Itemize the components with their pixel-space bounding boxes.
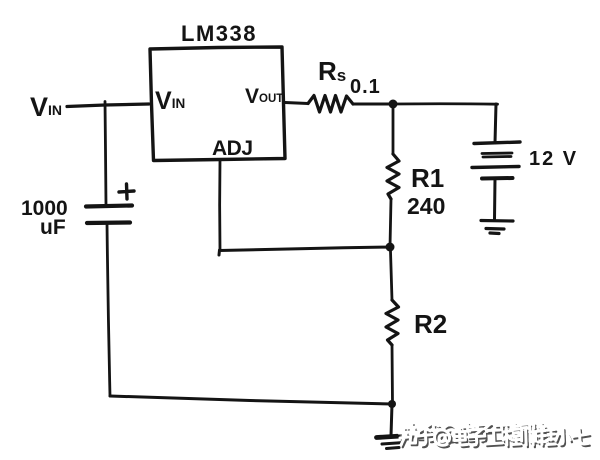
wire output node to battery: [393, 102, 498, 105]
resistor R1 (240 ohm) zigzag: [387, 154, 399, 199]
op-amp U1 LM338 regulator box: [150, 47, 285, 161]
wire capacitor down to bottom rail: [107, 223, 110, 396]
ground (bottom): [377, 436, 410, 438]
svg-text:R2: R2: [414, 309, 447, 339]
svg-text:240: 240: [407, 193, 445, 219]
battery B1 plate 2 (short, double-stroked): [482, 153, 512, 157]
wire R2 down to bottom rail node: [391, 345, 394, 404]
svg-text:R1: R1: [411, 163, 444, 193]
wire ground stem (bottom): [391, 404, 392, 436]
wire output node down to R1: [392, 108, 395, 154]
svg-text:ADJ: ADJ: [212, 137, 253, 160]
battery B1 plate 4 (short): [482, 176, 513, 181]
resistor Rs (0.1 ohm) zigzag: [308, 96, 353, 113]
svg-text:0.1: 0.1: [350, 76, 381, 98]
wire battery bottom stem: [493, 179, 497, 220]
wire ADJ node down to R2: [391, 251, 393, 300]
wire battery top stem: [495, 104, 496, 143]
wire ADJ pin down: [218, 160, 221, 250]
battery B1 plate 1 (long): [474, 142, 520, 144]
capacitor C1 bottom plate: [87, 220, 130, 225]
wire input node down to capacitor: [105, 102, 106, 207]
wire ADJ to R1/R2 node: [219, 247, 390, 255]
node junction dot (Rs / R1 / battery): [389, 100, 398, 109]
watermark 知乎@电子工程师小七 (drawn strokes): [399, 423, 590, 447]
battery B1 plate 3 (long): [472, 167, 519, 168]
wire Rs to output node: [353, 103, 393, 106]
wire VOUT pin to Rs: [285, 103, 308, 104]
svg-text:LM338: LM338: [181, 21, 257, 46]
svg-text:12 V: 12 V: [529, 148, 578, 170]
capacitor C1 1000uF top plate: [86, 206, 132, 207]
wire VIN label to box VIN pin: [67, 104, 149, 107]
capacitor plus sign: [119, 184, 134, 199]
svg-text:uF: uF: [40, 216, 66, 239]
wire bottom rail: [110, 396, 392, 404]
node junction dot (R1 / R2 / ADJ): [386, 243, 395, 252]
wire R1 to ADJ node: [390, 199, 391, 247]
ground (battery): [481, 221, 513, 234]
resistor R2 zigzag: [386, 300, 399, 345]
node junction dot (bottom rail / R2 / ground): [388, 400, 396, 408]
